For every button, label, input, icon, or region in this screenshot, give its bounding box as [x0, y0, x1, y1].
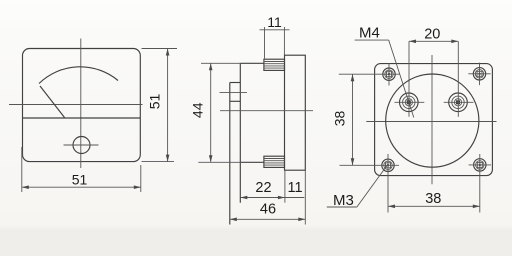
dim 11 top: dimension line — [260, 29, 290, 31]
svg-text:M4: M4 — [359, 25, 380, 42]
dial window lower edge — [23, 117, 141, 119]
dim 46: dimension line — [230, 218, 305, 220]
zero adjuster circle — [73, 137, 90, 154]
corner screw bottom-right — [469, 159, 491, 171]
meter case front outline — [23, 49, 141, 162]
dim 11 top: extension lines — [264, 27, 266, 59]
dim 38 left: dimension line — [352, 74, 354, 165]
dim 38 bottom: dimension line — [388, 205, 480, 207]
dim 51 right: extension lines — [142, 48, 178, 50]
horizontal centerline — [9, 104, 143, 106]
svg-text:11: 11 — [287, 180, 302, 196]
extension line below bezel left edge — [284, 170, 286, 203]
svg-text:44: 44 — [190, 102, 206, 118]
terminal M4 left — [395, 93, 425, 112]
bottom terminal screw block — [264, 156, 285, 167]
side view horizontal centerline — [220, 110, 313, 112]
svg-text:M3: M3 — [333, 192, 354, 209]
dim 20: dimension line — [409, 40, 458, 42]
bottom screw thread lines — [264, 158, 285, 160]
svg-text:38: 38 — [332, 111, 348, 127]
terminal right — [444, 93, 474, 112]
dim 11 bottom: dimension line — [285, 197, 304, 199]
dim 44: extension lines — [201, 62, 240, 64]
horizontal centerline — [366, 121, 496, 123]
dim 38 bottom: extension lines (through corner screws) — [387, 154, 389, 213]
corner screw top-right — [468, 63, 490, 86]
dim 22: dimension line — [240, 197, 285, 199]
M3 leader underline — [327, 206, 357, 208]
svg-text:38: 38 — [425, 191, 441, 207]
top terminal screw block — [264, 59, 285, 70]
meter body circle — [386, 74, 479, 167]
svg-text:51: 51 — [147, 94, 163, 110]
svg-text:46: 46 — [260, 202, 276, 218]
svg-text:22: 22 — [255, 180, 271, 196]
tab centerline — [220, 92, 248, 94]
svg-text:51: 51 — [72, 172, 88, 188]
body left edge (continues down as extension line for 22) — [239, 63, 241, 202]
svg-text:20: 20 — [424, 26, 440, 42]
top screw thread lines — [264, 61, 285, 63]
vertical centerline — [80, 39, 82, 169]
dim 20: extension line left (through terminal) — [408, 41, 410, 117]
corner screw bottom-left — [382, 159, 394, 171]
dim 38 left: extension lines (through corner screws) — [339, 73, 400, 75]
adjuster horizontal centerline — [64, 144, 99, 146]
M3 leader line — [357, 166, 387, 207]
extension line below bezel right edge (continues for 46) — [304, 170, 306, 224]
M4 leader underline — [355, 39, 389, 41]
corner screw top-left — [383, 63, 395, 86]
dim 51 right: dimension line — [167, 49, 169, 162]
scale arc — [39, 67, 118, 84]
svg-text:11: 11 — [267, 14, 282, 30]
M4 leader line — [389, 40, 414, 117]
vertical centerline — [431, 55, 433, 184]
dim 51 bottom: dimension line — [22, 186, 141, 188]
dim 20: extension line right (through terminal) — [457, 41, 459, 117]
body top edge — [240, 62, 264, 64]
dim 44: dimension line — [210, 63, 212, 162]
back plate outline — [375, 64, 493, 176]
needle — [40, 86, 65, 118]
side tab outline — [230, 82, 241, 84]
dim 51 bottom: extension lines — [21, 147, 23, 192]
front bezel rectangle — [285, 55, 306, 170]
body bottom edge — [240, 161, 264, 163]
side tab left edge (continues down as extension line for 46) — [229, 83, 231, 225]
